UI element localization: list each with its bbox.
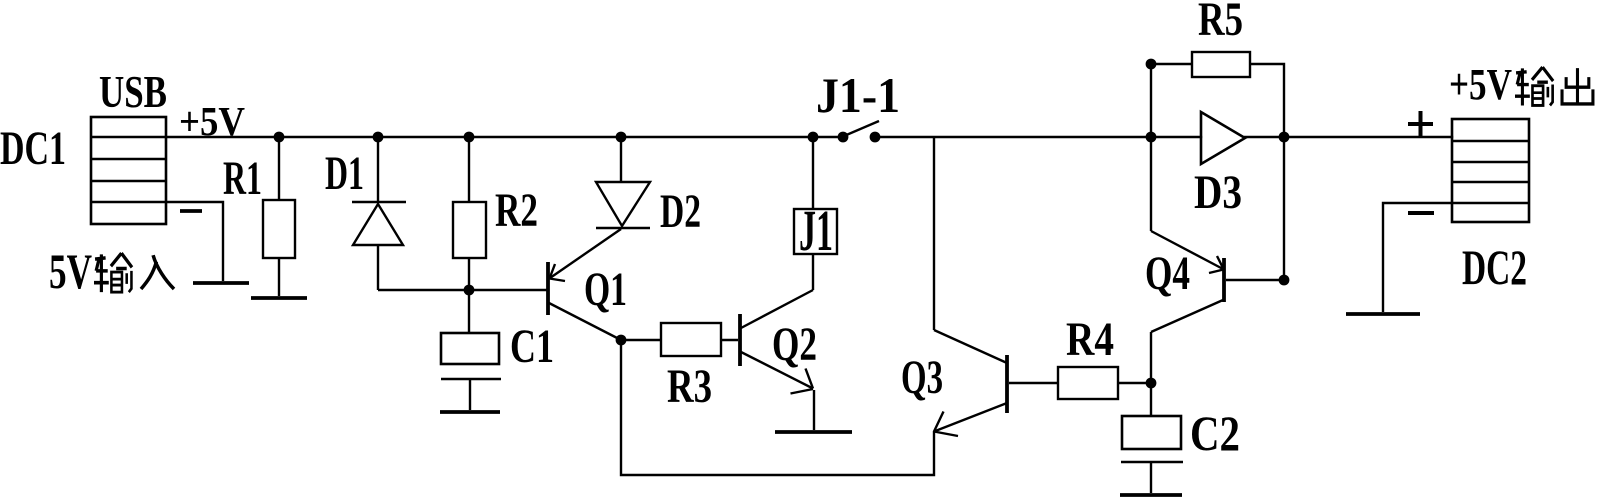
wire R1 bottom lead <box>278 258 280 296</box>
resistor R2 <box>453 202 486 258</box>
node junction R2/rail <box>464 132 475 143</box>
node junction D3 out/rail <box>1279 132 1290 143</box>
label minus sign at DC2 <box>1408 211 1434 215</box>
svg-text:R4: R4 <box>1066 313 1114 366</box>
svg-text:D2: D2 <box>660 185 701 238</box>
connector DC2 (output socket) <box>1452 119 1529 222</box>
wire R1 top lead <box>278 137 280 200</box>
resistor R4 <box>1058 367 1118 399</box>
wire Q3 base to R4 <box>1009 382 1058 384</box>
wire R2 bottom lead <box>468 258 470 290</box>
node junction R1/rail <box>274 132 285 143</box>
svg-text:USB: USB <box>99 67 167 117</box>
ground (DC1 minus) <box>193 281 249 285</box>
svg-text:C2: C2 <box>1190 405 1240 461</box>
wire D2 top lead <box>620 137 622 182</box>
svg-text:DC2: DC2 <box>1462 239 1527 295</box>
switch J1-1 left contact <box>838 132 849 143</box>
wire C2 bottom lead <box>1150 462 1152 493</box>
wire Q2 emitter lead <box>813 390 815 430</box>
transistor Q2 (NPN) <box>740 290 813 394</box>
wire feedback bottom run <box>621 340 934 475</box>
transistor Q3 (NPN) <box>934 330 1007 436</box>
svg-text:C1: C1 <box>510 320 554 373</box>
label 出 (of +5V输出) <box>1562 68 1593 104</box>
wire DC1 minus lead <box>166 202 223 281</box>
wire R5 left riser <box>1150 64 1152 137</box>
wire D1 bottom lead <box>377 245 379 290</box>
svg-text:5V: 5V <box>49 243 92 299</box>
svg-text:J1-1: J1-1 <box>816 67 900 123</box>
svg-text:R1: R1 <box>223 152 262 205</box>
label 输 (of 5V输入) <box>94 253 132 292</box>
svg-text:Q4: Q4 <box>1145 247 1190 300</box>
svg-text:D3: D3 <box>1194 166 1242 219</box>
node junction Q4 emitter/rail <box>1146 132 1157 143</box>
wire D1 top lead <box>377 137 379 202</box>
capacitor C1 <box>441 333 501 379</box>
connector DC1 (USB socket) <box>91 117 166 224</box>
ground (DC2 minus) <box>1346 312 1420 316</box>
wire Q4 emitter vertical <box>1150 137 1152 231</box>
transistor Q4 (PNP) <box>1151 231 1224 332</box>
switch J1-1 blade <box>844 121 879 136</box>
svg-text:R3: R3 <box>667 360 712 413</box>
wire output node vertical <box>1283 137 1285 280</box>
svg-text:DC1: DC1 <box>0 122 66 175</box>
node junction D2/rail <box>616 132 627 143</box>
wire Q3 collector drop from rail <box>933 137 935 330</box>
node junction R5 left <box>1146 59 1157 70</box>
svg-text:D1: D1 <box>325 147 364 200</box>
wire +5V rail right segment (D3 to DC2) <box>1245 136 1452 138</box>
svg-text:Q3: Q3 <box>901 351 943 404</box>
svg-text:Q1: Q1 <box>584 263 627 316</box>
wire Q4 base to output node <box>1226 279 1284 281</box>
wire C1 bottom lead <box>469 379 471 410</box>
node junction C1 <box>464 285 475 296</box>
diode D2 <box>596 182 650 228</box>
node junction Q1 collector <box>616 335 627 346</box>
wire DC2 minus lead <box>1383 203 1452 312</box>
wire Q1 collector to R3 <box>621 339 661 341</box>
resistor R5 <box>1192 52 1250 77</box>
label 输 (of +5V输出) <box>1515 67 1553 105</box>
wire R3 to Q2 base <box>721 339 738 341</box>
wire R5 right lead <box>1250 64 1284 137</box>
resistor R1 <box>263 200 295 258</box>
resistor R3 <box>661 323 721 356</box>
node junction Q4 base corner <box>1279 275 1290 286</box>
capacitor C2 <box>1121 416 1183 462</box>
wire +5V rail left segment <box>166 136 843 138</box>
wire R5 left lead <box>1151 63 1192 65</box>
svg-text:Q2: Q2 <box>772 318 817 371</box>
wire C2 top lead <box>1150 383 1152 416</box>
svg-text:+5V: +5V <box>1449 60 1512 109</box>
wire R2 top lead <box>468 137 470 202</box>
ground (C1) <box>440 410 500 414</box>
svg-text:J1: J1 <box>799 198 833 263</box>
wire C1 top lead <box>468 290 470 333</box>
switch J1-1 right contact <box>870 132 881 143</box>
label plus sign at DC2 <box>1408 111 1433 137</box>
svg-text:+5V: +5V <box>179 98 245 144</box>
relay coil J1 <box>794 209 837 254</box>
svg-text:R5: R5 <box>1198 0 1243 46</box>
ground (R1) <box>251 296 307 300</box>
diode D1 <box>352 202 406 245</box>
wire J1 coil bottom lead <box>812 254 814 290</box>
wire D1 to Q1 base horizontal <box>378 289 547 291</box>
wire J1 coil top lead <box>812 137 814 209</box>
svg-text:R2: R2 <box>495 184 538 237</box>
node junction J1/rail <box>808 132 819 143</box>
node junction R4/C2/Q4 <box>1146 378 1157 389</box>
diode D3 <box>1201 112 1245 164</box>
transistor Q1 (PNP) <box>548 229 621 340</box>
wire R4 to node <box>1118 382 1151 384</box>
label minus sign at DC1 <box>180 209 202 213</box>
node junction D1/rail <box>373 132 384 143</box>
ground (C2) <box>1120 493 1182 497</box>
ground (Q2 emitter) <box>775 430 852 434</box>
wire +5V rail right segment (switch to D3) <box>875 136 1201 138</box>
label 入 (of 5V输入) <box>141 255 174 289</box>
wire Q4 collector vertical <box>1150 332 1152 383</box>
